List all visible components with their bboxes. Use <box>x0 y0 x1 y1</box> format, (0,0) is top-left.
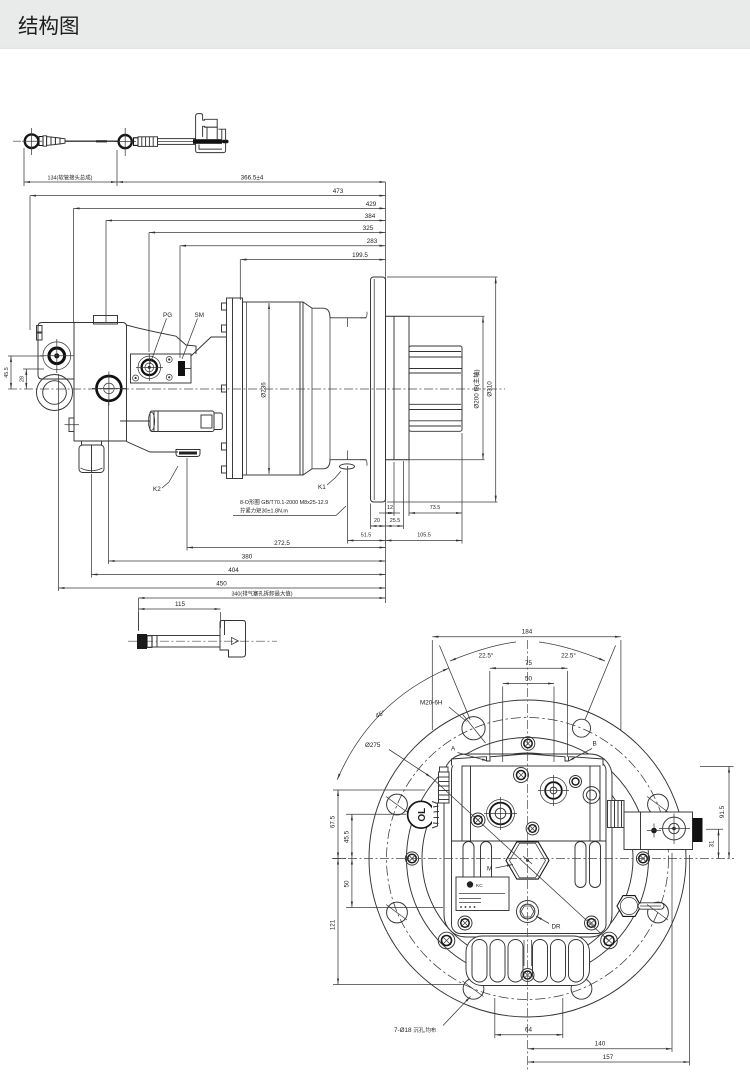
bolt hole B (top-right) <box>573 719 591 737</box>
dimension 64 <box>495 1034 563 1036</box>
left slot pair <box>463 842 474 888</box>
svg-text:DR: DR <box>552 924 562 931</box>
dimension 272.5 <box>187 547 386 549</box>
svg-text:404: 404 <box>228 567 239 574</box>
motor step profile top <box>303 302 367 318</box>
motor body circle Ø236 <box>407 738 649 980</box>
svg-text:366.5±4: 366.5±4 <box>241 175 264 182</box>
black end cap of valve <box>693 818 703 842</box>
svg-text:Ø310: Ø310 <box>487 381 494 397</box>
step face line <box>329 318 331 460</box>
extension line under fitting1 <box>23 148 25 186</box>
dimension 91.5 <box>728 766 730 858</box>
svg-text:K2: K2 <box>153 486 161 493</box>
dimension 75 <box>490 667 568 669</box>
angle arc left 22.5° <box>450 642 516 661</box>
motor mounting flange plate <box>227 298 243 479</box>
hose fitting 1 ring eye <box>25 134 39 148</box>
socket screw left <box>405 852 418 865</box>
svg-text:64: 64 <box>525 1027 533 1034</box>
svg-text:45.5: 45.5 <box>343 830 350 843</box>
svg-text:51.5: 51.5 <box>361 533 372 539</box>
dimension 73.5 <box>409 512 462 514</box>
svg-text:SM: SM <box>195 312 204 319</box>
bolt hole M20-6H (top-left) <box>462 717 485 740</box>
svg-text:184: 184 <box>522 629 533 636</box>
seal groove ticks <box>347 318 349 327</box>
dimension Ø200 f8 <box>387 315 485 317</box>
dimension 157 <box>528 1061 690 1063</box>
svg-text:Ø236: Ø236 <box>261 382 268 398</box>
drain plug under pilot valve <box>176 450 200 457</box>
dimension 340 exhaust plug reach <box>139 597 386 599</box>
dimension 50 left <box>351 859 353 908</box>
svg-text:73.5: 73.5 <box>430 505 441 511</box>
socket screw lower-right 45° <box>601 932 618 949</box>
lower-left open boss circle <box>37 375 73 411</box>
plate corner screw SE <box>585 916 599 930</box>
dimension 121 <box>337 859 339 985</box>
svg-text:121: 121 <box>330 919 337 930</box>
svg-text:7-Ø18 沉孔,均布: 7-Ø18 沉孔,均布 <box>394 1026 437 1034</box>
svg-text:28: 28 <box>19 376 25 382</box>
svg-text:拧紧力矩30±1.8N.m: 拧紧力矩30±1.8N.m <box>240 507 288 515</box>
exhaust plug bracket <box>220 621 246 658</box>
svg-text:105.5: 105.5 <box>417 533 431 539</box>
hose fitting 2 ribbed collar <box>134 138 139 146</box>
extension line under fitting2 <box>116 150 118 186</box>
dimension 51.5 <box>348 540 386 542</box>
dimension 283 <box>180 245 386 247</box>
mounting bracket on hose 2 <box>196 114 218 139</box>
port B <box>540 777 567 804</box>
port A <box>487 800 515 828</box>
dimension Ø310 <box>387 276 498 278</box>
hose fitting 2 ring eye <box>119 135 132 148</box>
svg-text:50: 50 <box>525 675 533 682</box>
pilot valve cylinder pin <box>120 420 150 422</box>
svg-text:340(排气塞孔拆卸最大值): 340(排气塞孔拆卸最大值) <box>231 590 292 598</box>
vertical centerline of flange view <box>527 640 529 1070</box>
dimension 450 <box>59 587 386 589</box>
angle arc right 22.5° <box>539 642 605 661</box>
dimension 31 <box>718 829 720 858</box>
outer flange circle Ø310 <box>369 700 686 1017</box>
dimension 45.5 <box>351 814 353 858</box>
X1 plug ellipse on motor bottom <box>340 464 355 469</box>
cover boss circle <box>422 753 633 964</box>
svg-text:B: B <box>593 741 597 748</box>
dimension 184 <box>432 636 621 638</box>
header band <box>0 0 750 49</box>
svg-text:31: 31 <box>709 840 716 848</box>
SM solenoid black plug <box>178 361 185 376</box>
dimension 115 <box>139 608 221 610</box>
right relief valve block <box>624 812 693 850</box>
motor step profile bottom <box>303 460 367 475</box>
slash on lower-right bolt hole <box>647 905 668 921</box>
datum extension line x=385.5 <box>385 182 387 603</box>
socket screw center <box>526 822 539 835</box>
output flange plate <box>371 277 386 502</box>
pilot valve cylinder <box>150 411 214 432</box>
socket screw right <box>636 852 649 865</box>
socket screw top <box>521 737 535 751</box>
main cover plate <box>452 762 607 934</box>
svg-text:M: M <box>487 866 492 873</box>
bolt circle Ø275 (dashed) <box>387 718 669 1000</box>
dimension 12 <box>379 512 400 514</box>
hose fitting 1 tapered connector <box>39 137 43 146</box>
svg-text:283: 283 <box>367 238 378 245</box>
dimension 20 <box>371 525 386 527</box>
angle rays 22.5 degrees <box>439 645 470 719</box>
centerline stub left of hose fitting 1 <box>13 140 21 142</box>
brake port circle (dark ring) <box>43 342 71 370</box>
spigot boss Ø200 <box>386 316 410 459</box>
svg-text:45.5: 45.5 <box>4 367 10 378</box>
dimension 380 <box>109 560 386 562</box>
svg-text:115: 115 <box>175 601 186 608</box>
svg-text:K1: K1 <box>318 484 326 491</box>
dimension 105.5 <box>386 540 463 542</box>
hose 2 long shaft <box>158 139 196 145</box>
dimension 134 hose assembly <box>24 181 117 183</box>
dimension 429 <box>74 207 386 209</box>
svg-text:380: 380 <box>242 554 253 561</box>
exhaust plug socket head <box>137 634 147 649</box>
small tab on block left edge <box>69 418 74 432</box>
svg-text:157: 157 <box>603 1054 614 1061</box>
motor main cylinder <box>243 302 304 475</box>
flange bolt tabs <box>222 303 227 310</box>
small pilot dot on valve <box>651 828 657 834</box>
svg-text:473: 473 <box>333 188 344 195</box>
splined shaft <box>409 346 462 431</box>
dimension 67.5 <box>337 790 339 859</box>
right valve port <box>663 817 686 840</box>
bracket latch detail <box>232 638 239 645</box>
top bump on valve block <box>94 316 118 325</box>
svg-text:Ø200 f8(主轴): Ø200 f8(主轴) <box>472 369 481 408</box>
svg-text:M20-6H: M20-6H <box>420 700 443 707</box>
socket screw bottom (rib gap) <box>521 969 534 982</box>
bolt hole bottom-right <box>571 978 592 999</box>
hex nut plug under block <box>82 441 102 445</box>
housing contour upper A <box>127 325 197 354</box>
second dark ring port <box>97 376 122 401</box>
svg-text:325: 325 <box>363 225 374 232</box>
svg-text:25.5: 25.5 <box>390 518 401 524</box>
PG port concentric circles <box>138 356 161 379</box>
dimension 473 <box>30 195 386 197</box>
main valve block body <box>74 323 127 442</box>
dimension 325 <box>149 232 386 234</box>
main centerline of motor axis <box>8 388 505 390</box>
bolt hole right-upper <box>648 794 669 815</box>
svg-text:OL: OL <box>417 808 428 822</box>
plate corner screw SW <box>458 916 472 930</box>
svg-text:20: 20 <box>374 518 380 524</box>
svg-text:91.5: 91.5 <box>719 805 726 818</box>
small screw right of B <box>570 776 582 788</box>
svg-text:67.5: 67.5 <box>330 815 337 828</box>
bolt hole left-upper <box>387 794 408 815</box>
ring port right <box>583 787 600 804</box>
dimension 140 <box>528 1048 672 1050</box>
svg-text:199.5: 199.5 <box>352 252 368 259</box>
dimension 384 <box>106 220 386 222</box>
dimension 366.5±4 <box>117 181 386 183</box>
left stub ports on valve block <box>37 326 43 333</box>
svg-text:50: 50 <box>343 880 350 888</box>
left edge of horizontal centerline <box>333 858 346 860</box>
rear cover fillet lines <box>360 312 367 318</box>
hex plug with pin lower right <box>617 896 641 917</box>
svg-text:140: 140 <box>595 1041 606 1048</box>
long assembly diagonal <box>432 778 610 942</box>
exhaust plug centerline <box>128 640 277 642</box>
svg-text:22.5°: 22.5° <box>479 652 494 660</box>
angle arc 45° <box>337 668 449 780</box>
svg-text:22.5°: 22.5° <box>561 652 576 660</box>
svg-text:8-O形圈 GB/T70.1-2000 M8x25-12.: 8-O形圈 GB/T70.1-2000 M8x25-12.9 <box>240 498 328 506</box>
hose 2 black hose band <box>193 139 222 144</box>
housing contour upper B <box>191 337 227 356</box>
dimension 50 top <box>503 683 554 685</box>
center hexagon shaft end <box>506 842 549 879</box>
bottom ribbed cooler cover <box>466 936 590 986</box>
cover casting silhouette <box>444 754 612 937</box>
name plate <box>456 877 509 911</box>
ribbed gauge rack above OL <box>440 767 449 772</box>
right slot pair <box>575 842 586 888</box>
socket screw left of A <box>471 813 485 827</box>
svg-text:272.5: 272.5 <box>274 540 290 547</box>
left upper valve block <box>38 323 74 380</box>
dimension 28 left <box>23 368 44 370</box>
svg-text:384: 384 <box>365 213 376 220</box>
socket screw lower-left 45° <box>438 932 455 949</box>
horizontal centerline of flange view <box>332 858 734 860</box>
svg-text:134(软管接头总成): 134(软管接头总成) <box>48 174 93 182</box>
svg-text:12: 12 <box>387 505 393 511</box>
dimension Ø236 <box>268 303 270 474</box>
socket screw on plate top <box>514 768 529 783</box>
svg-text:Ø275: Ø275 <box>365 742 381 749</box>
DR drain port <box>517 901 539 923</box>
PG gauge port block <box>131 354 192 383</box>
bolt hole bottom-left <box>463 978 484 999</box>
dimension 45.5 left <box>8 355 44 357</box>
dimension 199.5 <box>240 259 385 261</box>
hose fitting 1 needle <box>65 140 118 142</box>
top clamp strip with notches <box>452 754 604 765</box>
dimension 25.5 <box>386 525 404 527</box>
bracket bottom plate <box>196 142 226 152</box>
svg-text:PG: PG <box>163 312 172 319</box>
svg-text:KC: KC <box>476 883 483 889</box>
PG block corner screws <box>166 357 172 363</box>
dimension 404 <box>92 574 386 576</box>
svg-text:结构图: 结构图 <box>18 15 80 38</box>
svg-text:75: 75 <box>525 660 533 667</box>
housing contour lower <box>127 442 179 453</box>
bolt hole left-lower <box>387 902 408 923</box>
svg-text:450: 450 <box>216 581 227 588</box>
upper valve block <box>462 766 600 841</box>
OL oil level knob <box>408 801 435 828</box>
exhaust plug shank <box>152 636 220 648</box>
svg-text:429: 429 <box>366 201 377 208</box>
splined collar to right valve <box>608 801 625 828</box>
bolt hole right-lower <box>648 902 669 923</box>
